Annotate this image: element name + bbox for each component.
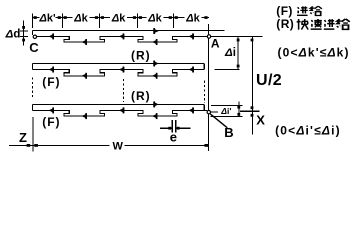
svg-text:Δk: Δk bbox=[147, 13, 162, 25]
W left bead bbox=[34, 144, 38, 147]
X axis bead bbox=[251, 114, 254, 117]
node A level extension wire bbox=[211, 35, 263, 37]
svg-text:(R): (R) bbox=[131, 49, 151, 63]
row1 feed arrows bbox=[49, 33, 55, 39]
svg-text:(F): (F) bbox=[42, 115, 60, 129]
svg-text:e: e bbox=[170, 130, 177, 145]
svg-text:Z: Z bbox=[19, 130, 27, 145]
delta-i-prime leader dash bbox=[211, 111, 218, 113]
hanzi jin line2 bbox=[324, 19, 335, 29]
svg-text:(F): (F) bbox=[276, 4, 293, 18]
node B leader diagonal bbox=[210, 114, 227, 128]
svg-text:W: W bbox=[113, 141, 124, 153]
hanzi gei line1 bbox=[310, 6, 322, 15]
row2 zigzag wire bbox=[32, 70, 204, 76]
B level crossing wire bbox=[240, 110, 260, 112]
node C circle bbox=[33, 35, 36, 38]
svg-text:Δd: Δd bbox=[5, 29, 21, 41]
W right bead bbox=[204, 144, 208, 147]
row3 zigzag wire bbox=[32, 110, 207, 116]
svg-text:Δk: Δk bbox=[111, 13, 126, 25]
svg-text:(0<Δk'≤Δk): (0<Δk'≤Δk) bbox=[278, 45, 349, 59]
svg-text:A: A bbox=[211, 37, 220, 51]
svg-text:(R): (R) bbox=[131, 89, 151, 103]
W left extension wire bbox=[32, 117, 34, 151]
svg-text:U/2: U/2 bbox=[256, 72, 282, 89]
svg-text:C: C bbox=[29, 40, 39, 55]
delta-i-prime upper extension wire bbox=[211, 104, 243, 106]
row2 return arrow bbox=[153, 61, 159, 67]
row3 return wire bbox=[32, 103, 204, 105]
node A vertical wire bbox=[208, 24, 210, 151]
repetition dotted wire right bbox=[203, 81, 205, 104]
svg-text:(R): (R) bbox=[276, 17, 294, 31]
svg-text:B: B bbox=[224, 125, 233, 140]
delta-i-prime dimension beads bbox=[237, 106, 240, 109]
hanzi kuai line2 bbox=[297, 19, 308, 30]
row2 feed arrows bbox=[49, 67, 55, 73]
svg-text:(F): (F) bbox=[42, 75, 60, 89]
label white backings top dimension bbox=[40, 12, 202, 23]
row2 left connector wire bbox=[31, 64, 33, 70]
delta-i-prime lower extension wire bbox=[211, 116, 243, 118]
svg-text:Δk: Δk bbox=[185, 13, 200, 25]
delta-i dimension line bbox=[237, 36, 239, 69]
svg-text:Δi: Δi bbox=[224, 47, 236, 59]
hanzi su line2 bbox=[311, 19, 322, 29]
row1 zigzag wire bbox=[37, 36, 207, 42]
delta-i-prime dimension line bbox=[238, 102, 240, 117]
row2 right connector wire bbox=[203, 64, 205, 70]
delta-i lower extension wire bbox=[215, 69, 240, 71]
row1 return wire bbox=[32, 30, 224, 32]
Z axis bead bbox=[27, 144, 31, 147]
node B circle bbox=[207, 110, 210, 113]
delta-i dimension beads bbox=[237, 39, 240, 42]
row3 return arrow bbox=[153, 101, 159, 107]
W dimension line bbox=[9, 144, 209, 146]
e dimension beads bbox=[168, 127, 171, 130]
dimension line top bbox=[32, 17, 209, 19]
e dimension arms bbox=[160, 127, 190, 129]
dimension ticks top bbox=[32, 13, 173, 28]
delta-d dimension line bbox=[20, 20, 28, 45]
row3 right connector wire bbox=[203, 104, 205, 110]
row3 feed arrows bbox=[49, 107, 55, 113]
node C vertical wire bbox=[31, 31, 33, 35]
svg-text:Δk': Δk' bbox=[38, 13, 56, 25]
dimension beads top bbox=[34, 16, 37, 19]
repetition dotted wire left bbox=[31, 77, 33, 99]
repetition dotted wire middle bbox=[122, 79, 124, 102]
hanzi gei line2 bbox=[337, 19, 350, 29]
U/2 dimension beads bbox=[251, 39, 254, 42]
node A circle bbox=[207, 35, 210, 38]
e dimension ticks bbox=[172, 120, 176, 132]
svg-text:X: X bbox=[256, 113, 265, 128]
row2 return wire bbox=[32, 63, 204, 65]
U/2 and X axis dimension line bbox=[251, 36, 253, 134]
row3 left connector wire bbox=[31, 104, 33, 110]
row1 return arrow bbox=[153, 28, 159, 34]
svg-text:Δk: Δk bbox=[73, 13, 88, 25]
hanzi jin line1 bbox=[297, 6, 308, 15]
svg-text:Δi': Δi' bbox=[220, 106, 231, 116]
delta-d dimension beads bbox=[22, 26, 25, 29]
